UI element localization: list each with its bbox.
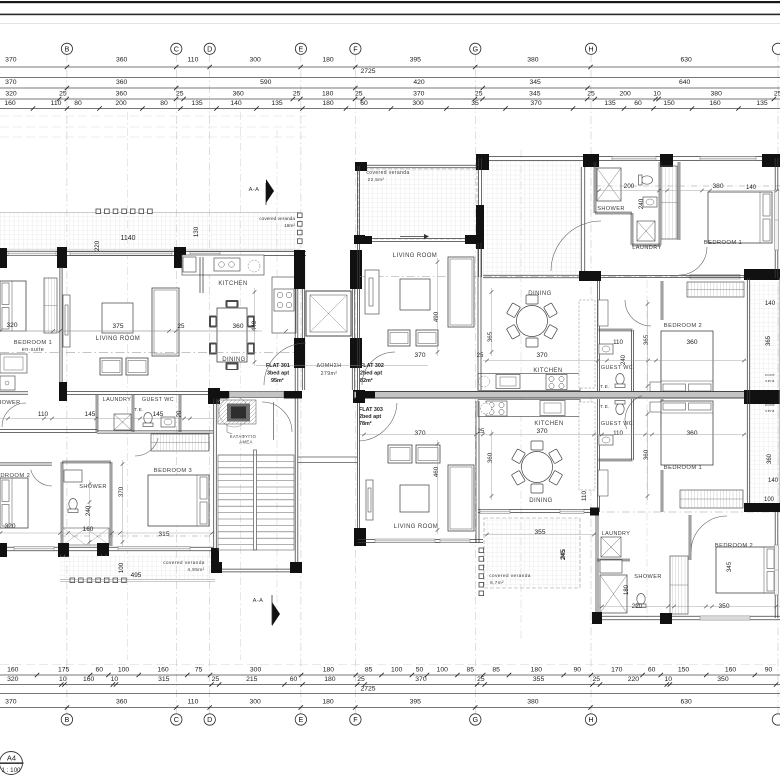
svg-text:25: 25 <box>355 91 363 98</box>
wall bedroom1/living <box>59 267 61 392</box>
stair center wall <box>254 450 257 550</box>
svg-text:25: 25 <box>357 676 365 683</box>
column top-left edge <box>0 248 7 268</box>
sofa 303 <box>448 465 474 531</box>
secondary grid dash <box>276 130 278 620</box>
svg-text:140: 140 <box>230 100 242 107</box>
column veranda22 left <box>355 162 367 171</box>
svg-text:LIVING ROOM: LIVING ROOM <box>96 336 140 342</box>
svg-text:GUEST WC: GUEST WC <box>601 365 633 371</box>
svg-text:180: 180 <box>324 676 336 683</box>
veranda 22.5 top wall <box>356 164 477 166</box>
veranda hatch top-left <box>0 213 300 250</box>
column right top A <box>476 154 489 170</box>
svg-text:360: 360 <box>686 339 697 346</box>
guest wc 303 walls <box>597 399 599 512</box>
vanity 303 <box>600 560 622 573</box>
column B top <box>57 247 67 268</box>
svg-text:360: 360 <box>233 91 245 98</box>
svg-text:ΑΜΕΑ: ΑΜΕΑ <box>239 440 252 445</box>
column left SE tall <box>211 548 219 573</box>
column party east <box>744 390 780 404</box>
faint dashed line <box>0 126 306 128</box>
svg-text:LAUNDRY: LAUNDRY <box>632 245 661 251</box>
svg-text:A4: A4 <box>7 754 16 763</box>
column elevator NE <box>350 250 362 289</box>
svg-text:FLAT 302: FLAT 302 <box>360 363 384 369</box>
laundry 303 walls <box>595 512 597 618</box>
bedroom1 303 west wall <box>660 399 662 430</box>
svg-text:B: B <box>65 715 70 724</box>
svg-text:175: 175 <box>58 667 70 674</box>
svg-text:300: 300 <box>412 100 424 107</box>
svg-text:370: 370 <box>5 79 17 86</box>
svg-text:380: 380 <box>527 699 539 706</box>
wall bedroom2 top <box>0 462 52 464</box>
coffee table 303 <box>400 485 429 512</box>
svg-text:25: 25 <box>587 91 595 98</box>
svg-text:135: 135 <box>756 100 768 107</box>
dining table 301 <box>209 300 255 370</box>
top dimension line 2725 <box>0 77 780 79</box>
section flag A-A top <box>266 179 274 203</box>
window arrow 302 <box>400 236 424 238</box>
bedroom2 302 west wall <box>660 281 662 320</box>
wall en-suite bottom <box>0 429 97 431</box>
svg-text:1 : 100: 1 : 100 <box>2 767 21 774</box>
svg-text:SHOWER: SHOWER <box>634 574 662 580</box>
bedroom2 303 west wall <box>688 515 690 560</box>
window <box>14 547 54 551</box>
svg-text:140: 140 <box>765 300 776 307</box>
svg-text:50: 50 <box>416 667 424 674</box>
svg-text:25: 25 <box>774 91 780 98</box>
svg-text:110: 110 <box>613 339 623 346</box>
window bedroom2 302 top <box>690 275 740 280</box>
svg-text:360: 360 <box>116 57 128 64</box>
svg-text:BEDROOM 2: BEDROOM 2 <box>0 473 30 479</box>
svg-text:150: 150 <box>678 667 690 674</box>
grid bubble D top <box>204 43 215 54</box>
svg-text:10: 10 <box>653 91 661 98</box>
sink guest wc 301 <box>161 417 175 427</box>
svg-text:2725: 2725 <box>360 68 375 75</box>
refuge leader <box>227 424 232 434</box>
svg-text:320: 320 <box>5 91 17 98</box>
svg-text:90: 90 <box>574 667 582 674</box>
svg-text:370: 370 <box>414 430 425 437</box>
bedroom1 302 bottom wall <box>601 274 748 276</box>
column stair SW <box>211 562 222 573</box>
tall unit corridor 303 <box>598 470 608 496</box>
right edge veranda hatch <box>750 282 779 511</box>
dim line 303 mid <box>360 433 748 437</box>
armchair 302 a <box>388 330 410 346</box>
bottom veranda line <box>60 579 215 581</box>
svg-text:10: 10 <box>665 676 673 683</box>
svg-text:360: 360 <box>643 449 650 460</box>
refuge turning circle <box>219 397 249 427</box>
column terrace west <box>476 205 484 249</box>
corridor centerline <box>360 276 780 278</box>
svg-text:370: 370 <box>5 57 17 64</box>
svg-text:covered veranda: covered veranda <box>366 170 409 176</box>
kitchen stove 301 <box>274 289 294 311</box>
ornament squares bottom-left veranda <box>70 578 126 583</box>
dining table 303 <box>511 441 562 493</box>
svg-text:90: 90 <box>765 667 773 674</box>
grid bubble C top <box>171 43 182 54</box>
armchair 301 b <box>126 358 148 375</box>
svg-text:370: 370 <box>536 428 547 435</box>
column mid stair <box>208 388 220 404</box>
svg-text:T.E.: T.E. <box>600 404 610 410</box>
svg-text:180: 180 <box>531 667 543 674</box>
living 303 bottom wall <box>358 538 483 540</box>
dim line 302 upper <box>595 189 780 193</box>
window <box>8 252 56 256</box>
svg-text:365: 365 <box>766 335 772 346</box>
column bottom mid <box>97 543 109 556</box>
en-suite door swing <box>2 403 26 427</box>
svg-text:60: 60 <box>648 667 656 674</box>
svg-text:A-A: A-A <box>253 598 264 604</box>
svg-text:320: 320 <box>7 676 19 683</box>
tv unit 302 <box>365 270 379 314</box>
faint dashed line bottom <box>0 664 780 666</box>
faint dashed line <box>0 115 306 117</box>
door swing bedroom1 302 <box>679 247 707 275</box>
centerline left flat <box>0 352 296 354</box>
svg-text:2725: 2725 <box>360 686 375 693</box>
vdim 370 left <box>121 460 125 546</box>
svg-text:100: 100 <box>391 667 403 674</box>
veranda 22.5 hatch <box>358 169 477 239</box>
stair top wall band <box>229 392 284 398</box>
svg-text:220: 220 <box>628 676 640 683</box>
shower tray 303 <box>600 575 627 613</box>
svg-text:135: 135 <box>191 100 203 107</box>
elevator west wall <box>301 253 303 390</box>
kitchen counter 302 <box>478 374 580 391</box>
stair treads <box>218 454 294 456</box>
svg-text:380: 380 <box>711 91 723 98</box>
svg-text:F: F <box>353 44 358 53</box>
svg-text:180: 180 <box>322 91 334 98</box>
svg-text:365: 365 <box>643 334 650 345</box>
bed bedroom2 303 <box>716 547 776 593</box>
svg-text:375: 375 <box>112 323 123 330</box>
grid bubble G top <box>470 43 481 54</box>
svg-text:4,95m²: 4,95m² <box>187 567 204 573</box>
column bottom B <box>58 543 69 557</box>
svg-text:135: 135 <box>271 100 283 107</box>
svg-text:35: 35 <box>471 100 479 107</box>
kitchen sink 302 <box>496 375 520 389</box>
column stair NW <box>210 391 229 399</box>
svg-text:SHOWER: SHOWER <box>0 400 21 406</box>
window bedroom2 303 east <box>775 545 779 595</box>
svg-text:380: 380 <box>527 57 539 64</box>
svg-text:110: 110 <box>51 100 62 107</box>
centerline bedroom3 <box>60 535 215 537</box>
bed bedroom 3 <box>148 475 209 526</box>
svg-text:A-A: A-A <box>249 187 260 193</box>
wardrobe bedroom1 303 <box>680 490 743 508</box>
svg-text:DINING: DINING <box>528 291 551 297</box>
svg-text:360: 360 <box>487 452 494 463</box>
svg-text:145: 145 <box>153 411 164 418</box>
window bedroom1 302 east <box>775 190 779 250</box>
sink guest wc 302 <box>599 344 613 354</box>
svg-text:B: B <box>65 44 70 53</box>
svg-text:360: 360 <box>686 430 697 437</box>
vdim 490 <box>436 258 440 356</box>
grid bubble B top <box>61 43 72 54</box>
kitchen dw 302 <box>479 376 490 387</box>
svg-text:140: 140 <box>768 478 779 484</box>
veranda 8.7 hatch <box>484 518 580 588</box>
svg-text:110: 110 <box>38 411 49 418</box>
column right edge c <box>744 503 780 512</box>
svg-text:160: 160 <box>83 526 94 533</box>
toilet 302 <box>639 175 653 185</box>
stair block west wall <box>213 393 215 573</box>
wardrobe bedroom2 302 <box>687 282 744 297</box>
svg-text:460: 460 <box>433 466 440 477</box>
svg-text:180: 180 <box>624 584 630 595</box>
tall cabinet 302 <box>661 166 677 239</box>
tall unit corridor 302 <box>598 300 608 326</box>
svg-text:315: 315 <box>158 676 170 683</box>
bed bedroom 2 left <box>0 478 28 528</box>
toilet shower mid <box>68 499 78 513</box>
svg-text:KITCHEN: KITCHEN <box>533 368 562 374</box>
column bottom left edge <box>0 543 7 557</box>
refuge area hatch <box>218 400 256 424</box>
svg-text:10: 10 <box>59 676 67 683</box>
svg-text:60: 60 <box>290 676 298 683</box>
bedroom1 302 west wall <box>677 162 679 240</box>
door swing bedroom2 302 <box>625 300 651 326</box>
svg-text:370: 370 <box>536 352 547 359</box>
sink 302 <box>643 197 657 207</box>
column right top C <box>660 154 673 167</box>
svg-text:25: 25 <box>178 323 185 330</box>
grid bubble edge bottom <box>772 714 780 725</box>
svg-text:345: 345 <box>529 91 541 98</box>
top dimension line 4 <box>0 108 780 110</box>
svg-text:85: 85 <box>467 667 475 674</box>
svg-text:110: 110 <box>188 699 199 706</box>
svg-text:1140: 1140 <box>120 235 135 242</box>
terrace west wall <box>478 158 480 277</box>
section flag A-A bottom <box>272 602 280 626</box>
elevator shaft <box>306 291 351 336</box>
wardrobe bedroom 3 <box>151 434 209 451</box>
vdim 460 <box>436 440 440 534</box>
toilet guest wc 301 <box>143 413 153 427</box>
guest wc 302 walls <box>597 281 599 391</box>
stair block bottom wall <box>213 568 300 570</box>
section line A-A top <box>265 183 267 205</box>
niche 302 <box>650 382 662 392</box>
bottom dimension line D <box>0 707 780 709</box>
svg-text:75: 75 <box>195 667 203 674</box>
svg-text:ΚΑΤΑΦΥΓΙΟ: ΚΑΤΑΦΥΓΙΟ <box>230 434 257 439</box>
svg-text:25: 25 <box>293 91 301 98</box>
kitchen fridge 301 <box>183 257 196 272</box>
toilet guest wc 303 <box>615 401 625 415</box>
kitchen dw 301 <box>248 260 260 272</box>
svg-text:E: E <box>299 44 304 53</box>
svg-text:T.E.: T.E. <box>134 407 144 413</box>
top dimension line 2 <box>0 87 780 89</box>
bottom dimension line B <box>0 684 780 686</box>
dim line 303 lower <box>598 605 780 609</box>
svg-text:245: 245 <box>560 549 567 560</box>
sofa living room 301 <box>152 288 179 356</box>
wall living302 east <box>477 243 479 390</box>
svg-text:160: 160 <box>4 100 16 107</box>
svg-text:315: 315 <box>158 531 169 538</box>
vdim 440 <box>253 288 257 366</box>
svg-text:370: 370 <box>413 91 425 98</box>
svg-text:345: 345 <box>726 561 733 572</box>
veranda 4.95 hatch <box>60 555 211 580</box>
svg-text:LIVING ROOM: LIVING ROOM <box>393 253 437 259</box>
grid bubble E bottom <box>295 714 306 725</box>
secondary grid dash <box>127 112 129 660</box>
shower vanity <box>64 470 82 482</box>
svg-text:80: 80 <box>74 100 82 107</box>
svg-text:78m²: 78m² <box>359 421 372 427</box>
kitchen dw 303 <box>481 403 492 414</box>
svg-text:180: 180 <box>322 699 334 706</box>
column elevator NW <box>294 250 305 289</box>
svg-text:85: 85 <box>365 667 373 674</box>
svg-text:145: 145 <box>85 411 96 418</box>
dining 303 bottom wall <box>478 508 598 510</box>
svg-text:370: 370 <box>415 676 427 683</box>
en-suite sink2 <box>0 376 15 390</box>
svg-text:110: 110 <box>613 430 623 437</box>
svg-text:G: G <box>473 44 479 53</box>
door swing bedroom 2 left <box>31 470 52 486</box>
svg-text:279m²: 279m² <box>321 371 338 377</box>
armchair 303 b <box>416 445 440 463</box>
svg-text:D: D <box>207 44 212 53</box>
column mid <box>59 382 67 401</box>
secondary grid dash <box>646 280 648 620</box>
svg-text:8,7m²: 8,7m² <box>490 580 504 585</box>
svg-text:370: 370 <box>5 699 17 706</box>
faint dashed line <box>0 136 306 138</box>
sofa 302 <box>448 257 474 327</box>
ornament squares veranda18 right <box>298 213 303 243</box>
bottom wall 303 <box>597 615 780 617</box>
washing machine 303 <box>601 537 621 557</box>
svg-text:vera: vera <box>765 378 775 383</box>
svg-text:300: 300 <box>249 699 261 706</box>
door swing bedroom1 303 <box>625 396 642 429</box>
window dining 303 b <box>560 510 584 514</box>
svg-text:G: G <box>473 715 479 724</box>
bottom dimension line A <box>0 674 780 676</box>
elevator east wall <box>351 253 353 390</box>
svg-text:en-suite: en-suite <box>22 347 44 353</box>
section line A-A bottom <box>271 595 273 625</box>
svg-text:370: 370 <box>414 352 425 359</box>
svg-text:135: 135 <box>604 100 616 107</box>
veranda 22.5 dashed edge <box>358 169 477 239</box>
niche 303 <box>650 402 662 412</box>
column dining 303 <box>590 508 599 516</box>
coffee table 302 <box>400 279 430 310</box>
svg-text:100: 100 <box>118 562 125 573</box>
svg-text:10: 10 <box>111 676 119 683</box>
svg-text:320: 320 <box>4 523 15 530</box>
svg-text:100: 100 <box>764 497 775 503</box>
grid bubble G bottom <box>470 714 481 725</box>
party wall 302/303 <box>354 392 748 399</box>
svg-text:SHOWER: SHOWER <box>597 206 625 212</box>
svg-text:200: 200 <box>624 183 635 190</box>
kitchen sink 303 <box>540 401 565 416</box>
secondary grid dash <box>240 112 242 660</box>
vdim 240-160 left <box>88 480 92 546</box>
svg-text:2bed apt: 2bed apt <box>359 414 381 420</box>
grid bubble F top <box>350 43 361 54</box>
tv unit 303 <box>366 480 373 520</box>
wall mid horizontal left flat <box>0 391 28 393</box>
svg-text:100: 100 <box>118 667 130 674</box>
window <box>612 157 656 161</box>
bed bedroom1 303 <box>661 401 713 465</box>
wall shower left <box>60 462 62 546</box>
kitchen stove 302 <box>546 375 567 390</box>
svg-text:DINING: DINING <box>529 498 552 504</box>
bed bedroom1 302 <box>708 192 772 243</box>
svg-text:220: 220 <box>94 240 101 251</box>
top dimension line 1 <box>0 66 780 68</box>
centerline 302 upper <box>595 185 780 187</box>
window dining 303 a <box>480 510 510 514</box>
window <box>70 252 172 255</box>
kitchen stove 303 <box>486 401 507 416</box>
faint band <box>0 23 780 24</box>
vdim 360 303b <box>646 410 650 500</box>
column corridor B <box>744 269 780 280</box>
armchair 303 a <box>388 445 412 463</box>
window <box>700 157 756 161</box>
grid line <box>474 54 476 713</box>
ornament squares top-left <box>96 209 152 214</box>
door swing bedroom 3 <box>135 438 158 456</box>
dim line left flat upper <box>0 329 288 333</box>
svg-text:25: 25 <box>212 676 220 683</box>
toilet guest wc 302 <box>615 374 625 388</box>
svg-text:H: H <box>588 44 593 53</box>
svg-text:360: 360 <box>116 699 128 706</box>
top dimension line 3 <box>0 98 780 100</box>
bottom dimension line 2725 <box>0 693 780 695</box>
svg-text:GUEST WC: GUEST WC <box>142 397 174 403</box>
kitchen west wall stub <box>199 257 201 293</box>
svg-text:200: 200 <box>619 91 631 98</box>
party wall black segment <box>356 391 375 399</box>
dim line 302 mid <box>483 359 748 363</box>
